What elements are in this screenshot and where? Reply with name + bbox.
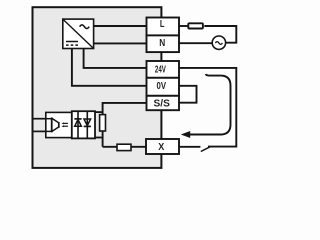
- light arrows (LED to transistor): [61, 122, 68, 127]
- wire X to switch: [179, 146, 200, 148]
- AC/DC converter U1: [63, 19, 94, 48]
- wire AC source to N: [179, 42, 212, 44]
- terminal L: [147, 18, 180, 36]
- terminal 24V: [147, 61, 180, 78]
- wire 24V right to switch (outer loop): [179, 68, 236, 147]
- optocoupler PC1 package: [46, 112, 93, 137]
- terminal S/S: [147, 96, 180, 110]
- wire opto collector to left border: [33, 118, 47, 120]
- wire S/S (opto top node to terminal S/S): [103, 103, 147, 147]
- annotation arrow (external wiring path): [181, 74, 231, 138]
- wire fuse to AC source: [204, 26, 236, 43]
- wire L (converter to terminal L): [93, 25, 147, 27]
- switch S1 blade: [201, 147, 210, 152]
- terminal 0V: [147, 78, 180, 96]
- wire L to fuse: [179, 25, 189, 27]
- svg-text:L: L: [160, 19, 165, 30]
- LED D1 (up diode, left branch): [74, 111, 81, 138]
- LED box bottom extension to node: [95, 137, 103, 139]
- svg-text:X: X: [158, 142, 164, 153]
- LED pair box (input side of PC1): [72, 111, 95, 138]
- resistor R1 (series, horizontal): [117, 144, 131, 150]
- PLC enclosure: [33, 7, 162, 168]
- wire 24V (converter bottom-right pin to terminal 24V): [84, 48, 147, 68]
- AC source G1: [212, 36, 225, 49]
- terminal X: [146, 139, 179, 154]
- wire 0V (converter bottom-left pin to terminal 0V): [72, 48, 147, 86]
- wire N (converter to terminal N): [93, 42, 147, 44]
- svg-text:S/S: S/S: [154, 98, 171, 109]
- svg-text:0V: 0V: [157, 81, 167, 92]
- fuse F1: [188, 23, 203, 28]
- jumper 0V to S/S (right side): [179, 86, 197, 103]
- resistor R2 (vertical, parallel): [100, 115, 106, 131]
- LED box top extension to node: [95, 111, 103, 113]
- svg-text:24V: 24V: [155, 64, 166, 75]
- LED D2 (down diode, right branch): [84, 111, 91, 138]
- wire opto emitter to left border: [33, 130, 47, 132]
- terminal N: [147, 35, 180, 52]
- wire X (bottom node through R1 to terminal X): [103, 146, 147, 148]
- phototransistor (left half of PC1): [47, 117, 60, 132]
- svg-text:N: N: [159, 38, 165, 49]
